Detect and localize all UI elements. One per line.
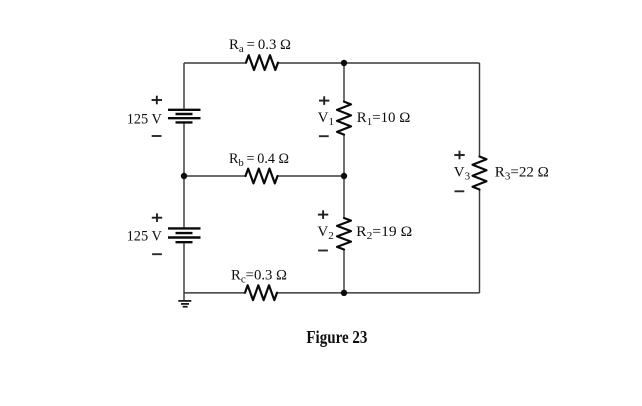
svg-text:R2=19 Ω: R2=19 Ω — [356, 224, 412, 242]
minus sign battery B1 — [152, 135, 162, 137]
wire left rail upper (node A to battery B1) — [183, 63, 185, 109]
svg-text:R1=10 Ω: R1=10 Ω — [357, 110, 411, 128]
svg-text:R3=22 Ω: R3=22 Ω — [495, 165, 549, 183]
svg-text:V2: V2 — [317, 224, 333, 242]
wire right rail upper (top corner to R3) — [479, 63, 481, 157]
svg-text:V1: V1 — [318, 110, 334, 128]
wire bottom rail (ground node to node E to right rail) — [184, 292, 480, 294]
node C junction dot (top of middle branch) — [341, 60, 347, 66]
minus sign V2 — [318, 250, 328, 252]
wire left rail between node B and battery B2 — [183, 176, 185, 227]
svg-text:Rc=0.3 Ω: Rc=0.3 Ω — [231, 267, 287, 285]
minus sign battery B2 — [152, 253, 162, 255]
node D junction dot (right end of middle wire) — [341, 173, 347, 179]
battery B2 125 V (lower left source) — [168, 228, 201, 242]
plus sign V3 — [454, 151, 464, 160]
svg-text:V3: V3 — [454, 165, 471, 183]
node E junction dot (bottom of middle branch) — [341, 290, 347, 296]
wire middle branch between R2 and node E — [343, 250, 345, 293]
resistor Rc 0.3 ohm (bottom rail) — [245, 285, 277, 300]
ground symbol — [178, 301, 191, 307]
wire top rail (node A to node C) — [184, 62, 480, 64]
battery B1 125 V (upper left source) — [168, 110, 201, 123]
wire middle branch upper (node C to R1) — [343, 63, 345, 102]
wire middle branch between node D and R2 — [343, 176, 345, 218]
plus sign battery B1 — [152, 96, 162, 105]
wire left rail lower (battery B2 to ground) — [183, 243, 185, 301]
node B junction dot (left end of middle wire) — [181, 173, 187, 179]
wire right rail lower (R3 to bottom corner) — [479, 190, 481, 293]
minus sign V3 — [455, 190, 465, 192]
wire middle horizontal (node B to node D) — [184, 175, 344, 177]
svg-text:Figure 23: Figure 23 — [306, 327, 367, 347]
wire middle branch between R1 and node D — [343, 135, 345, 176]
plus sign battery B2 — [152, 213, 162, 222]
wire left rail between B1 and node B — [183, 123, 185, 176]
minus sign V1 — [319, 135, 329, 137]
resistor Rb 0.4 ohm (middle wire) — [246, 169, 278, 184]
resistor R1 10 ohm (middle branch upper) — [337, 102, 351, 135]
resistor R2 19 ohm (middle branch lower) — [337, 218, 351, 250]
svg-text:125 V: 125 V — [127, 229, 162, 245]
svg-text:125 V: 125 V — [127, 112, 162, 128]
plus sign V1 — [319, 96, 329, 105]
resistor Ra 0.3 ohm (top rail) — [246, 55, 278, 70]
svg-text:Ra = 0.3 Ω: Ra = 0.3 Ω — [229, 37, 291, 55]
svg-text:Rb = 0.4 Ω: Rb = 0.4 Ω — [229, 151, 289, 169]
plus sign V2 — [318, 210, 328, 219]
resistor R3 22 ohm (right rail) — [473, 157, 487, 190]
